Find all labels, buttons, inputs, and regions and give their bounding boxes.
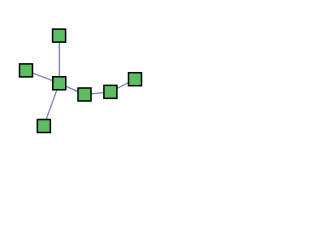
wire N3-N5 bbox=[59, 83, 84, 94]
node N5 (middle-right square) bbox=[78, 88, 91, 101]
node N4 (bottom-left square) bbox=[37, 120, 50, 133]
node N6 (right square) bbox=[104, 85, 117, 98]
wire N6-N7 bbox=[110, 79, 135, 92]
node N3 (center square) bbox=[53, 77, 66, 90]
node N2 (left square) bbox=[20, 64, 33, 77]
wire N3-N4 bbox=[44, 83, 59, 126]
wire N5-N6 bbox=[85, 92, 111, 95]
wire N1-N3 bbox=[58, 36, 60, 84]
wire N2-N3 bbox=[26, 70, 59, 83]
node N1 (top square) bbox=[53, 29, 66, 42]
node N7 (far-right square) bbox=[129, 73, 142, 86]
